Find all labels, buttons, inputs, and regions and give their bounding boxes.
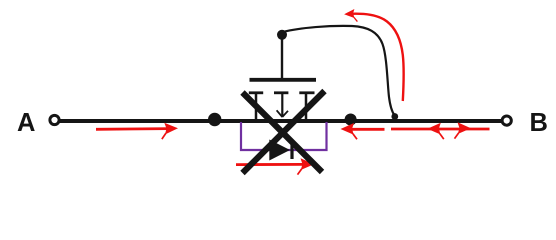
terminal B (open circle) — [502, 116, 511, 125]
red curved arrow: gate signal path — [344, 9, 404, 101]
terminal A (open circle) — [50, 115, 59, 124]
svg-text:A: A — [17, 109, 35, 137]
junction dot: gate wire on B side — [391, 113, 398, 120]
red arrow: current A toward switch — [96, 122, 178, 139]
MOSFET drain stub — [305, 93, 308, 119]
junction dot: right (drain node) — [345, 114, 357, 126]
wire: curved gate-to-drain connection — [283, 26, 395, 116]
body diode D (triangle + cathode bar) — [269, 140, 292, 161]
svg-text:B: B — [530, 109, 548, 137]
cross-out X stroke 1 — [243, 93, 323, 173]
red double arrow: bidirectional (right head) — [455, 122, 472, 138]
wire: main horizontal A-to-B line — [59, 119, 501, 123]
cross-out X stroke 2 — [243, 91, 325, 173]
MOSFET channel segment: source — [249, 91, 263, 94]
MOSFET gate wire (vertical) — [281, 35, 283, 78]
MOSFET channel segment: body — [274, 91, 288, 94]
red arrow: current from B toward switch (left-pointing) — [341, 123, 385, 139]
MOSFET source stub — [255, 93, 258, 119]
gate node dot — [277, 30, 287, 40]
MOSFET channel segment: drain — [299, 91, 314, 94]
body connection (purple loop) — [241, 122, 327, 150]
junction dot: left (source node) — [208, 113, 221, 126]
MOSFET body stub with down arrow — [277, 93, 288, 117]
red double arrow: bidirectional (left head) — [427, 123, 444, 139]
red line under B wire — [391, 128, 490, 131]
red arrow: body-diode reverse path (bottom) — [236, 158, 314, 174]
MOSFET gate plate — [250, 78, 317, 82]
